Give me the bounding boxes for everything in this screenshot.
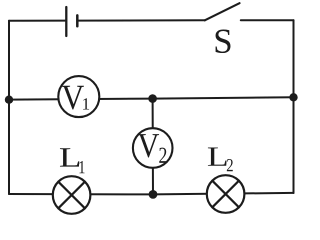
lamp L1 circle — [53, 176, 91, 214]
wire right vertical — [293, 20, 295, 193]
wire bottom row — [9, 193, 294, 195]
battery short plate (-) — [76, 15, 79, 26]
switch S blade — [205, 3, 240, 20]
voltmeter U2 circle — [133, 128, 173, 168]
label S — [216, 30, 231, 54]
label L2 subscript — [227, 159, 233, 171]
voltmeter V2 subscript — [159, 148, 166, 163]
battery long plate (+) — [65, 7, 67, 36]
label L2 — [208, 147, 227, 165]
lamp L2 circle — [207, 175, 245, 213]
wire top-left (battery to left corner) — [9, 20, 66, 22]
label L1 — [60, 148, 79, 166]
label L1 subscript — [79, 161, 84, 173]
wire V2 branch vertical — [152, 99, 154, 195]
junction node right — [289, 93, 297, 101]
wire middle row (V1 row) — [9, 97, 294, 99]
lamp L2 cross — [212, 181, 238, 207]
wire battery to switch — [78, 19, 206, 21]
wire left vertical — [8, 21, 10, 194]
voltmeter V2 letter — [138, 134, 159, 157]
junction node middle top — [148, 94, 157, 103]
voltmeter V1 subscript — [83, 98, 89, 109]
wire switch to top-right corner — [241, 19, 294, 21]
junction node left — [5, 96, 13, 104]
lamp L1 cross — [58, 182, 84, 208]
voltmeter U1 circle — [58, 76, 99, 117]
voltmeter V1 letter — [62, 86, 84, 110]
junction node middle bottom — [149, 190, 158, 199]
